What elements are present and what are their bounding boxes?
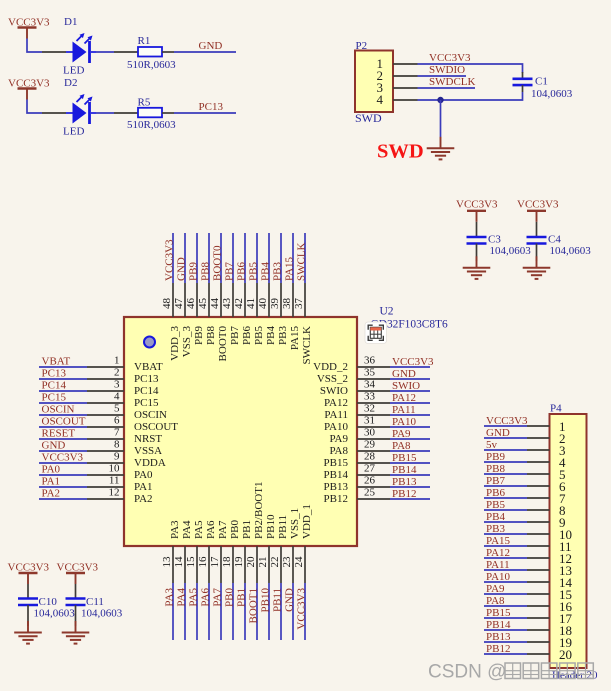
svg-text:VCC3V3: VCC3V3 [296, 588, 308, 630]
wire net PB3 (pin 39) [280, 233, 282, 283]
wire net PA5 (pin 15) [196, 583, 198, 640]
capacitor C11 104,0603 [66, 596, 123, 626]
U2 pin 16 (PA6) [197, 520, 217, 583]
wire net PA2 (pin 12) [39, 498, 87, 500]
wire net PB14 (pin 27) [390, 474, 430, 476]
svg-text:PA9: PA9 [329, 433, 348, 445]
svg-text:PA1: PA1 [42, 476, 61, 488]
wire net SWDCLK (P2 pin 3) [418, 87, 476, 89]
wire net PB7 (pin 43) [232, 233, 234, 283]
svg-text:NRST: NRST [134, 433, 162, 445]
svg-text:GND: GND [486, 427, 510, 439]
svg-text:29: 29 [364, 439, 376, 451]
wire VCC3V3 to C11 [75, 584, 77, 599]
svg-text:20: 20 [245, 556, 257, 568]
svg-text:PB9: PB9 [486, 451, 505, 463]
svg-text:PA15: PA15 [289, 326, 301, 351]
P4 pin 4 [527, 455, 566, 470]
svg-text:VCC3V3: VCC3V3 [42, 452, 84, 464]
svg-text:15: 15 [185, 556, 197, 568]
svg-text:41: 41 [245, 298, 257, 309]
svg-text:34: 34 [364, 379, 376, 391]
U2 pin 6 (OSCOUT) [87, 415, 178, 434]
svg-text:C4: C4 [548, 234, 561, 246]
wire net PA6 (pin 16) [208, 583, 210, 640]
wire net PB12 (P4 pin 20) [484, 653, 527, 655]
svg-text:SWD: SWD [377, 141, 424, 163]
watermark CSDN @ (gray) [428, 662, 593, 683]
svg-text:GND: GND [284, 588, 296, 612]
svg-text:SWD: SWD [355, 111, 382, 125]
P4 pin 6 [527, 479, 566, 494]
svg-text:OSCIN: OSCIN [134, 409, 167, 421]
U2 pin 37 (SWCLK) [293, 283, 313, 365]
svg-text:GND: GND [392, 368, 416, 380]
IC U2 GD32F103C8T6 body [124, 317, 357, 546]
svg-text:43: 43 [221, 298, 233, 310]
svg-text:GND: GND [42, 440, 66, 452]
U2 pin 3 (PC14) [87, 379, 159, 398]
P4 pin 2 [527, 431, 566, 446]
wire net PB9 (P4 pin 4) [484, 461, 527, 463]
svg-text:PA11: PA11 [324, 409, 348, 421]
svg-text:PB10: PB10 [265, 514, 277, 539]
wire net PC15 (pin 4) [39, 402, 87, 404]
capacitor C1 104,0603 [513, 72, 573, 100]
svg-text:C11: C11 [86, 596, 104, 608]
wire net PA4 (pin 14) [184, 583, 186, 640]
U2 pin 14 (PA4) [173, 520, 193, 583]
U2 pin 4 (PC15) [87, 391, 159, 410]
svg-text:PB4: PB4 [260, 262, 272, 281]
wire net PA1 (pin 11) [39, 486, 87, 488]
svg-text:37: 37 [293, 298, 305, 310]
svg-text:PB15: PB15 [486, 607, 511, 619]
junction dot on P2 pin 4 net [437, 97, 443, 103]
svg-text:VCC3V3: VCC3V3 [517, 199, 559, 211]
svg-text:GND: GND [199, 40, 223, 52]
svg-text:C3: C3 [488, 234, 501, 246]
wire net PB6 (pin 42) [244, 233, 246, 283]
svg-text:104,0603: 104,0603 [550, 245, 592, 257]
LED D2 [42, 77, 96, 138]
U2 pin 31 (PA10) [324, 415, 390, 434]
wire net PA9 (pin 30) [390, 438, 430, 440]
U2 pin 11 (PA1) [87, 475, 153, 494]
svg-text:PB13: PB13 [392, 476, 417, 488]
svg-text:PC15: PC15 [42, 392, 67, 404]
svg-text:PB12: PB12 [392, 488, 416, 500]
U2 pin 26 (PB13) [324, 475, 390, 494]
svg-text:PB14: PB14 [392, 464, 417, 476]
P4 pin 17 [527, 611, 573, 626]
wire net PB6 (P4 pin 7) [484, 497, 527, 499]
U2 pin 42 (PB6) [233, 283, 253, 345]
U2 pin 33 (PA12) [324, 391, 390, 410]
svg-text:510R,0603: 510R,0603 [127, 59, 176, 71]
svg-text:SWDIO: SWDIO [429, 64, 465, 76]
P2 pin 2 [377, 68, 418, 83]
svg-text:PB3: PB3 [277, 326, 289, 345]
wire net PA15 (pin 38) [292, 233, 294, 283]
svg-text:OSCIN: OSCIN [42, 404, 75, 416]
U2 pin 36 (VDD_2) [313, 355, 390, 374]
U2 pin 17 (PA7) [209, 520, 229, 583]
power VCC3V3 (C11) [57, 562, 99, 585]
wire net BOOT0 (pin 44) [220, 233, 222, 283]
svg-text:PA8: PA8 [486, 595, 505, 607]
P4 pin 15 [527, 587, 572, 602]
svg-text:VCC3V3: VCC3V3 [429, 52, 471, 64]
svg-text:PB5: PB5 [253, 326, 265, 345]
svg-text:25: 25 [364, 487, 376, 499]
wire net PB8 (pin 45) [208, 233, 210, 283]
wire net OSCIN (pin 5) [39, 414, 87, 416]
svg-text:PA10: PA10 [392, 416, 417, 428]
P4 pin 16 [527, 599, 573, 614]
wire net PC13 (pin 2) [39, 378, 87, 380]
svg-text:14: 14 [173, 556, 185, 568]
wire net PB5 (P4 pin 8) [484, 509, 527, 511]
svg-text:PB12: PB12 [486, 643, 510, 655]
U2 pin 10 (PA0) [87, 463, 153, 482]
P4 pin 3 [527, 443, 566, 458]
U2 pin 1 (VBAT) [87, 355, 163, 374]
wire D2 cathode to R5 [96, 112, 114, 114]
svg-text:PC13: PC13 [199, 101, 224, 113]
svg-text:PA15: PA15 [284, 256, 296, 281]
wire net VCC3V3 (pin 24) [304, 583, 306, 640]
wire VCC3V3 to D2 [27, 100, 42, 114]
svg-text:PA7: PA7 [217, 520, 229, 539]
U2 pin 21 (PB10) [257, 514, 277, 583]
wire net PB4 (pin 40) [268, 233, 270, 283]
svg-text:PB14: PB14 [324, 469, 349, 481]
U2 pin 30 (PA9) [329, 427, 390, 446]
svg-text:PA0: PA0 [134, 469, 153, 481]
U2 pin 40 (PB4) [257, 283, 277, 345]
U2 pin 9 (VDDA) [87, 451, 166, 470]
U2 pin 22 (PB11) [269, 515, 289, 583]
svg-text:PA3: PA3 [169, 520, 181, 539]
svg-text:VDD_2: VDD_2 [313, 361, 348, 373]
wire net PB7 (P4 pin 6) [484, 485, 527, 487]
svg-text:35: 35 [364, 367, 376, 379]
wire net PB10 (pin 21) [268, 583, 270, 640]
U2 pin 19 (PB1) [233, 520, 253, 583]
wire net PB3 (P4 pin 10) [484, 533, 527, 535]
screenshot table icon overlay [365, 322, 387, 344]
svg-text:104,0603: 104,0603 [490, 245, 532, 257]
svg-text:VSS_1: VSS_1 [289, 508, 301, 539]
P2 pin 3 [377, 80, 418, 95]
svg-text:27: 27 [364, 463, 376, 475]
svg-text:21: 21 [257, 557, 269, 568]
svg-text:13: 13 [161, 556, 173, 568]
svg-text:C10: C10 [39, 596, 58, 608]
wire net PA11 (P4 pin 13) [484, 569, 527, 571]
power VCC3V3 (C3) [456, 199, 498, 222]
wire P2 pin 4 to C1 bottom and ground [418, 92, 523, 100]
svg-text:PA12: PA12 [392, 392, 416, 404]
ground (C10) [14, 621, 42, 644]
svg-text:38: 38 [281, 298, 293, 310]
svg-text:40: 40 [257, 298, 269, 310]
wire net SWIO (pin 34) [390, 390, 430, 392]
power VCC3V3 (D2 anode net) [8, 78, 50, 100]
svg-text:PB8: PB8 [200, 262, 212, 281]
P4 pin 8 [527, 503, 566, 518]
svg-text:PA10: PA10 [486, 571, 511, 583]
power VCC3V3 (D1 anode net) [8, 17, 50, 39]
wire net PA9 (P4 pin 15) [484, 593, 527, 595]
svg-text:OSCOUT: OSCOUT [42, 416, 86, 428]
ground (C11) [62, 621, 90, 644]
capacitor C4 104,0603 [527, 234, 592, 262]
svg-text:PB5: PB5 [486, 499, 505, 511]
resistor R1 510R,0603 [114, 35, 176, 71]
svg-text:PA11: PA11 [392, 404, 416, 416]
svg-text:R1: R1 [138, 35, 151, 47]
svg-text:U2: U2 [380, 306, 394, 318]
svg-text:4: 4 [114, 391, 120, 403]
connector P4 (Header 20) box [550, 403, 599, 682]
P4 pin 1 [527, 419, 566, 434]
svg-text:PA9: PA9 [486, 583, 505, 595]
svg-text:12: 12 [109, 487, 120, 499]
wire net PA12 (pin 33) [390, 402, 430, 404]
svg-text:PB15: PB15 [324, 457, 349, 469]
svg-text:PA5: PA5 [193, 520, 205, 539]
svg-text:PB15: PB15 [392, 452, 417, 464]
wire net VCC3V3 (P2 pin 1 to C1 top) [418, 64, 523, 73]
wire net GND (pin 23) [292, 583, 294, 640]
svg-text:VBAT: VBAT [42, 356, 71, 368]
svg-text:SWIO: SWIO [320, 385, 348, 397]
svg-text:SWCLK: SWCLK [301, 326, 313, 365]
wire net VCC3V3 (P4 pin 1) [484, 425, 527, 427]
wire net PA12 (P4 pin 12) [484, 557, 527, 559]
svg-text:VCC3V3: VCC3V3 [57, 562, 99, 574]
svg-text:SWDCLK: SWDCLK [429, 76, 476, 88]
svg-text:10: 10 [109, 463, 121, 475]
svg-text:VCC3V3: VCC3V3 [8, 562, 50, 574]
svg-text:PB9: PB9 [188, 262, 200, 281]
svg-text:VCC3V3: VCC3V3 [164, 239, 176, 281]
wire VCC3V3 to C10 [27, 584, 29, 599]
capacitor C10 104,0603 [18, 596, 75, 626]
wire D1 cathode to R1 [96, 51, 114, 53]
wire net GND (pin 8) [39, 450, 87, 452]
U2 pin 8 (VSSA) [87, 439, 162, 458]
svg-text:PB7: PB7 [486, 475, 505, 487]
svg-text:6: 6 [114, 415, 120, 427]
svg-text:PB3: PB3 [486, 523, 505, 535]
svg-text:PB1: PB1 [236, 588, 248, 607]
wire net PB15 (P4 pin 17) [484, 617, 527, 619]
P4 pin 10 [527, 527, 572, 542]
svg-text:OSCOUT: OSCOUT [134, 421, 178, 433]
U2 pin 41 (PB5) [245, 283, 265, 345]
svg-text:VDDA: VDDA [134, 457, 166, 469]
svg-text:PA9: PA9 [392, 428, 411, 440]
wire net PA8 (pin 29) [390, 450, 430, 452]
wire net GND (P4 pin 2) [484, 437, 527, 439]
svg-text:VCC3V3: VCC3V3 [392, 356, 434, 368]
svg-text:18: 18 [221, 556, 233, 568]
svg-text:LED: LED [63, 126, 84, 138]
wire net GND (pin 47) [184, 233, 186, 283]
ground (C3) [463, 256, 491, 279]
svg-text:PB6: PB6 [241, 326, 253, 345]
svg-text:BOOT0: BOOT0 [217, 326, 229, 362]
svg-text:D1: D1 [64, 16, 77, 28]
svg-text:RESET: RESET [42, 428, 76, 440]
svg-text:PA7: PA7 [212, 588, 224, 607]
svg-text:PB0: PB0 [229, 520, 241, 539]
U2 pin 39 (PB3) [269, 283, 289, 345]
ground (C4) [523, 256, 551, 279]
svg-text:4: 4 [377, 92, 384, 107]
svg-text:11: 11 [109, 475, 120, 487]
U2 pin 25 (PB12) [324, 487, 390, 506]
svg-text:31: 31 [364, 415, 375, 427]
svg-text:PC15: PC15 [134, 397, 159, 409]
P4 pin 5 [527, 467, 566, 482]
P4 pin 7 [527, 491, 566, 506]
ground (P2 pin 4 net) [427, 137, 455, 160]
svg-text:39: 39 [269, 298, 281, 310]
svg-text:PA0: PA0 [42, 464, 61, 476]
wire net PB8 (P4 pin 5) [484, 473, 527, 475]
svg-text:PB8: PB8 [205, 326, 217, 345]
svg-text:42: 42 [233, 298, 245, 309]
svg-text:PB2/BOOT1: PB2/BOOT1 [253, 482, 265, 539]
wire net OSCOUT (pin 6) [39, 426, 87, 428]
svg-text:SWIO: SWIO [392, 380, 420, 392]
svg-text:VSS_3: VSS_3 [181, 326, 193, 358]
svg-text:9: 9 [114, 451, 120, 463]
svg-text:24: 24 [293, 556, 305, 568]
U2 pin 29 (PA8) [329, 439, 390, 458]
svg-text:30: 30 [364, 427, 376, 439]
U2 pin 7 (NRST) [87, 427, 162, 446]
svg-text:VDD_3: VDD_3 [169, 326, 181, 361]
U2 pin 43 (PB7) [221, 283, 241, 345]
svg-text:BOOT1: BOOT1 [248, 588, 260, 623]
svg-text:PB10: PB10 [260, 588, 272, 613]
U2 pin 12 (PA2) [87, 487, 153, 506]
svg-text:PA8: PA8 [329, 445, 348, 457]
wire net PA11 (pin 32) [390, 414, 430, 416]
svg-text:PB13: PB13 [324, 481, 349, 493]
wire junction down to ground [440, 100, 442, 137]
LED D1 [42, 16, 96, 77]
P4 pin 13 [527, 563, 572, 578]
svg-text:33: 33 [364, 391, 376, 403]
P4 pin 9 [527, 515, 566, 530]
wire net PB13 (pin 26) [390, 486, 430, 488]
svg-text:PB13: PB13 [486, 631, 511, 643]
svg-text:46: 46 [185, 298, 197, 310]
svg-text:5: 5 [114, 403, 120, 415]
wire VCC3V3 to C4 [536, 222, 538, 237]
svg-text:36: 36 [364, 355, 376, 367]
svg-text:PA8: PA8 [392, 440, 411, 452]
svg-text:45: 45 [197, 298, 209, 310]
svg-text:PA4: PA4 [176, 588, 188, 607]
svg-text:44: 44 [209, 298, 221, 310]
svg-text:PA12: PA12 [486, 547, 510, 559]
resistor R5 510R,0603 [114, 97, 176, 132]
wire VCC3V3 to D1 [27, 39, 42, 53]
U2 pin 15 (PA5) [185, 520, 205, 583]
svg-text:PC14: PC14 [134, 385, 159, 397]
wire net PB4 (P4 pin 9) [484, 521, 527, 523]
P4 pin 12 [527, 551, 572, 566]
svg-text:PA1: PA1 [134, 481, 153, 493]
wire net PB9 (pin 46) [196, 233, 198, 283]
svg-text:PC14: PC14 [42, 380, 67, 392]
U2 pin 32 (PA11) [324, 403, 390, 422]
svg-text:2: 2 [114, 367, 120, 379]
svg-text:VCC3V3: VCC3V3 [486, 415, 528, 427]
svg-text:PB1: PB1 [241, 520, 253, 539]
P4 pin 19 [527, 635, 572, 650]
svg-text:PB14: PB14 [486, 619, 511, 631]
wire net VCC3V3 (pin 9) [39, 462, 87, 464]
wire net PA8 (P4 pin 16) [484, 605, 527, 607]
svg-text:PA2: PA2 [42, 488, 61, 500]
svg-text:VBAT: VBAT [134, 361, 163, 373]
svg-text:PB12: PB12 [324, 493, 348, 505]
P4 pin 18 [527, 623, 572, 638]
svg-text:BOOT0: BOOT0 [212, 245, 224, 281]
svg-text:VSSA: VSSA [134, 445, 162, 457]
svg-text:3: 3 [114, 379, 120, 391]
wire net 5v (P4 pin 3) [484, 449, 527, 451]
svg-text:PB4: PB4 [265, 326, 277, 345]
svg-text:1: 1 [114, 355, 120, 367]
wire net PA7 (pin 17) [220, 583, 222, 640]
wire net PB13 (P4 pin 19) [484, 641, 527, 643]
P2 pin 1 [377, 56, 418, 71]
U2 pin 44 (BOOT0) [209, 283, 229, 361]
U2 pin 5 (OSCIN) [87, 403, 167, 422]
svg-text:17: 17 [209, 556, 221, 568]
svg-text:510R,0603: 510R,0603 [127, 119, 176, 131]
U2 pin 48 (VDD_3) [161, 283, 181, 361]
wire net SWCLK (pin 37) [304, 233, 306, 283]
svg-text:104,0603: 104,0603 [531, 88, 573, 100]
svg-text:PB6: PB6 [236, 262, 248, 281]
wire net PB15 (pin 28) [390, 462, 430, 464]
wire net PA15 (P4 pin 11) [484, 545, 527, 547]
wire net VBAT (pin 1) [39, 366, 87, 368]
svg-text:LED: LED [63, 65, 84, 77]
svg-text:PB4: PB4 [486, 511, 505, 523]
U2 pin 47 (VSS_3) [173, 283, 193, 357]
svg-text:PA5: PA5 [188, 588, 200, 607]
svg-text:23: 23 [281, 556, 293, 568]
svg-text:PC13: PC13 [42, 368, 67, 380]
power VCC3V3 (C10) [8, 562, 50, 585]
power VCC3V3 (C4) [517, 199, 559, 222]
wire net PA10 (P4 pin 14) [484, 581, 527, 583]
svg-text:PA6: PA6 [205, 520, 217, 539]
svg-text:104,0603: 104,0603 [34, 608, 76, 620]
U2 pin 46 (PB9) [185, 283, 205, 345]
